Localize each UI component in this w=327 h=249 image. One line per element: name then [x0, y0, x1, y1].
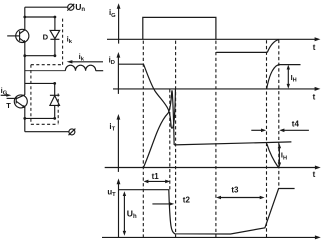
axis iG horizontal — [107, 37, 320, 41]
svg-text:t: t — [313, 170, 316, 179]
dashed timeline x=175.6 — [175, 41, 177, 238]
dashed ik path vertical right lower — [57, 94, 59, 125]
dashed timeline x=215.9 — [215, 41, 217, 238]
gate current arrow — [1, 94, 12, 97]
waveform iT rise with overshoot — [143, 91, 174, 168]
axis iD vertical — [117, 52, 121, 94]
svg-text:T: T — [6, 101, 11, 110]
svg-text:IH: IH — [291, 73, 297, 84]
diode D — [50, 17, 60, 56]
waveform iG negative — [216, 39, 279, 52]
axis iD horizontal — [113, 87, 320, 91]
dashed timeline x=278.8 — [278, 40, 280, 189]
dashed ik path horizontal bottom — [31, 123, 58, 125]
dashed timeline t1 edge x=143.3 — [142, 41, 144, 238]
dimension t3 — [216, 196, 265, 200]
transistor V1 — [7, 29, 29, 42]
current arrow over inductor — [67, 60, 103, 63]
axis iT vertical — [117, 114, 121, 172]
waveform iD turn-off rise — [267, 65, 301, 89]
inductor Lk coil — [65, 65, 95, 71]
transistor T — [7, 95, 28, 108]
node dot — [53, 117, 56, 120]
wire branch D2 top — [25, 82, 55, 84]
svg-text:t: t — [313, 92, 316, 101]
wire bottom out — [25, 131, 69, 133]
waveform iT conduction level — [174, 142, 291, 145]
svg-text:iT: iT — [109, 122, 115, 133]
svg-text:IH: IH — [281, 151, 287, 162]
dimension t4 — [251, 129, 309, 133]
diode D2 freewheel — [50, 83, 60, 118]
dashed timeline x=266.5 — [266, 40, 268, 239]
svg-text:t4: t4 — [292, 119, 300, 128]
waveform iD flat and decay with recovery dip — [118, 64, 175, 128]
dashed ik path vertical left — [30, 65, 32, 125]
waveform iG pulse — [143, 17, 216, 39]
wire left rail upper — [24, 7, 26, 30]
wire rail lower — [24, 107, 26, 131]
dashed ik path horizontal upper — [31, 64, 63, 66]
svg-text:Uh: Uh — [127, 209, 137, 220]
svg-text:ik: ik — [79, 52, 85, 63]
terminal output — [69, 129, 76, 136]
axis iG vertical — [117, 3, 121, 43]
dimension IH row3 — [278, 144, 281, 168]
svg-text:iG: iG — [109, 8, 116, 19]
node dot — [23, 54, 26, 57]
dashed ik path vertical right of D — [62, 19, 64, 65]
svg-text:t1: t1 — [152, 172, 160, 181]
svg-text:D: D — [43, 33, 49, 42]
svg-text:t3: t3 — [231, 186, 239, 195]
dashed timeline x=169.8 — [169, 89, 171, 189]
wire rail mid1 — [24, 42, 26, 95]
svg-text:t2: t2 — [183, 195, 191, 204]
waveform uT — [119, 189, 295, 235]
dimension t1 — [144, 180, 171, 184]
svg-text:iD: iD — [109, 56, 115, 67]
dimension IH row2 — [287, 65, 290, 89]
dimension Uh — [123, 191, 126, 236]
axis iT horizontal — [105, 166, 321, 170]
inductor Lk wire right — [96, 70, 104, 72]
waveform iT turn-off fall — [267, 144, 279, 168]
node dot — [54, 16, 57, 19]
svg-text:ik: ik — [67, 35, 73, 46]
wire branch D top — [25, 16, 55, 18]
node dot — [23, 16, 26, 19]
node dot — [54, 54, 57, 57]
wire branch D2 bottom — [25, 117, 55, 119]
svg-text:Un: Un — [75, 2, 85, 13]
terminal Un — [67, 4, 74, 11]
wire top rail horizontal — [25, 6, 68, 8]
inductor Lk wire left — [25, 70, 66, 72]
axis uT vertical — [117, 178, 121, 237]
svg-text:t: t — [313, 43, 316, 52]
svg-text:uT: uT — [107, 188, 116, 199]
dimension t2 — [152, 202, 174, 206]
wire branch D bottom — [25, 55, 55, 57]
node dot — [23, 117, 26, 120]
node dot — [53, 82, 56, 85]
axis uT bottom — [102, 235, 321, 239]
